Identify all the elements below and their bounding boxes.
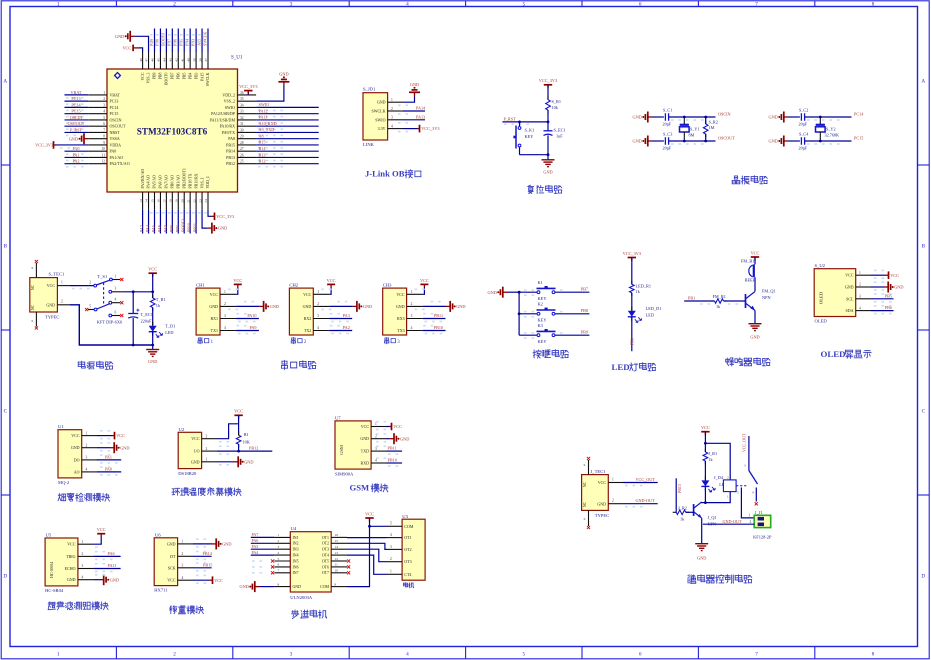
svg-text:OLED: OLED: [821, 349, 846, 359]
svg-text:PA12/USB/DP: PA12/USB/DP: [211, 111, 236, 116]
svg-text:39: 39: [192, 58, 196, 62]
svg-text:VSSA: VSSA: [110, 136, 120, 141]
svg-text:GND: GND: [279, 71, 288, 76]
svg-text:PA3: PA3: [139, 225, 144, 232]
svg-text:3: 3: [182, 564, 184, 568]
svg-text:RX2: RX2: [304, 316, 312, 321]
MCU left pins 1-12: [88, 94, 107, 96]
MCU right pins 36-25: [238, 94, 257, 96]
svg-text:16: 16: [335, 533, 339, 537]
svg-text:PA7/AO: PA7/AO: [165, 175, 169, 188]
svg-text:B14: B14: [259, 146, 267, 151]
svg-text:GND: GND: [67, 577, 76, 582]
wire CH2 TX net PA2: [329, 330, 352, 332]
svg-text:GND: GND: [410, 82, 419, 87]
wire MQ-2 DO net PA1: [97, 459, 121, 461]
svg-text:4: 4: [86, 468, 88, 472]
svg-text:1: 1: [317, 290, 319, 294]
svg-text:1: 1: [748, 514, 750, 518]
svg-text:6: 6: [31, 319, 33, 323]
svg-text:LED: LED: [646, 313, 654, 318]
svg-text:26: 26: [240, 153, 244, 157]
svg-text:PB11/RX: PB11/RX: [194, 173, 198, 188]
svg-text:S_C3: S_C3: [663, 131, 672, 136]
svg-text:5: 5: [523, 1, 526, 7]
svg-text:22: 22: [192, 199, 196, 203]
wire LED to collector junction: [704, 486, 706, 502]
svg-text:B13: B13: [259, 152, 266, 157]
svg-text:C: C: [922, 409, 926, 415]
wire R1 to IO junction: [238, 444, 240, 451]
caption 串口: [291, 338, 295, 344]
svg-text:ECHO: ECHO: [65, 566, 76, 571]
svg-text:COM: COM: [320, 585, 329, 589]
svg-text:PB15: PB15: [226, 142, 235, 147]
ground at HX711 pin1: [193, 543, 212, 545]
MCU top pins 48-37: [142, 52, 144, 69]
svg-text:VCC_OUT: VCC_OUT: [636, 477, 656, 482]
svg-text:PA15: PA15: [200, 72, 204, 81]
svg-text:GND: GND: [110, 577, 119, 582]
svg-text:OSCIN: OSCIN: [110, 117, 122, 122]
wire OT1 to U3 pin4: [347, 537, 387, 539]
wire MQ-2 AO net PA0: [97, 471, 121, 473]
svg-text:PA13: PA13: [416, 114, 425, 119]
svg-text:U1: U1: [58, 424, 64, 429]
svg-text:U4: U4: [291, 526, 297, 531]
svg-text:U7: U7: [335, 415, 341, 420]
svg-text:9: 9: [584, 463, 586, 467]
power VCC_3V3 to VDDA pin 9: [56, 144, 88, 146]
svg-text:VCC: VCC: [361, 424, 370, 429]
svg-text:GND: GND: [456, 304, 465, 309]
svg-text:STM32F103C8T6: STM32F103C8T6: [137, 127, 208, 137]
svg-text:PB11: PB11: [434, 313, 443, 318]
svg-text:GND: GND: [360, 436, 369, 441]
svg-text:VCC: VCC: [845, 273, 854, 278]
wire left MCU nets: [65, 94, 89, 96]
svg-text:VCC: VCC: [327, 278, 336, 283]
wire VCC to R1: [547, 85, 549, 100]
svg-text:GND: GND: [239, 584, 248, 589]
wire OT3 to U3 pin2: [347, 549, 387, 562]
svg-text:HX711: HX711: [154, 588, 168, 593]
transistor J_Q1 NPN: [693, 504, 695, 516]
svg-text:T_S1: T_S1: [97, 274, 108, 279]
svg-text:D: D: [921, 574, 925, 580]
svg-text:NC: NC: [583, 481, 587, 487]
ground at JD1 pin 1: [403, 97, 415, 103]
svg-text:S_K1: S_K1: [525, 128, 535, 133]
caption smoke detect module: [58, 493, 66, 500]
relay J_RK1 SRD-05 coil: [723, 480, 736, 492]
svg-text:2: 2: [750, 520, 752, 524]
wire junction to relay coil top: [705, 443, 730, 480]
svg-text:GND: GND: [218, 226, 227, 231]
svg-text:PB7: PB7: [171, 72, 175, 79]
svg-text:NPN: NPN: [762, 295, 771, 300]
transistor FM_Q1 NPN: [745, 294, 747, 308]
wire CH1 RX net PA10: [236, 318, 259, 320]
svg-text:OT3: OT3: [322, 548, 329, 552]
svg-text:OT1: OT1: [322, 536, 329, 540]
svg-text:PB3: PB3: [194, 72, 198, 79]
wire switch pin3 to VCC rail: [121, 291, 152, 293]
svg-text:KEY: KEY: [538, 339, 548, 344]
svg-text:PB12: PB12: [226, 161, 235, 166]
ground at MCU pin 47: [134, 36, 148, 52]
svg-text:38: 38: [198, 58, 202, 62]
svg-text:CH1: CH1: [196, 282, 205, 287]
svg-text:PA3/RX/AO: PA3/RX/AO: [141, 169, 145, 189]
svg-text:BOOT0: BOOT0: [165, 72, 169, 85]
svg-text:3: 3: [82, 564, 84, 568]
power VCC at MQ-2 pin1: [97, 435, 112, 437]
svg-text:4: 4: [390, 533, 392, 537]
wire node to net P_RST: [502, 121, 548, 123]
svg-text:PC14: PC14: [71, 102, 81, 107]
svg-text:CH3: CH3: [383, 282, 392, 287]
svg-text:GND: GND: [632, 115, 641, 120]
svg-text:5: 5: [390, 522, 392, 526]
svg-text:T_D1: T_D1: [165, 324, 175, 329]
svg-text:I/O: I/O: [194, 449, 199, 454]
wire VCC_OUT net: [608, 482, 623, 484]
svg-text:U5: U5: [46, 533, 52, 538]
svg-text:PC15: PC15: [854, 136, 863, 141]
power VCC_3V3 at VDD_2 pin 36: [247, 91, 249, 95]
wire SCK net PB15: [193, 567, 212, 569]
svg-text:TX2: TX2: [304, 328, 311, 333]
svg-text:OLED: OLED: [815, 319, 828, 324]
svg-text:PA1: PA1: [72, 152, 79, 157]
svg-text:220uF: 220uF: [141, 318, 153, 323]
svg-text:31: 31: [240, 122, 244, 126]
svg-text:11: 11: [102, 153, 106, 157]
svg-text:PB10: PB10: [187, 223, 192, 232]
svg-text:47: 47: [145, 58, 149, 62]
svg-text:GND: GND: [363, 304, 372, 309]
svg-text:S_C1: S_C1: [663, 107, 672, 112]
svg-text:SWIO: SWIO: [375, 117, 385, 122]
svg-text:NC: NC: [31, 304, 35, 310]
svg-text:8: 8: [872, 651, 875, 657]
svg-text:PA4/AO: PA4/AO: [147, 175, 151, 188]
wire VCC to buzzer: [754, 257, 756, 264]
svg-text:VCC: VCC: [191, 436, 200, 441]
svg-text:VCC: VCC: [393, 424, 402, 429]
svg-text:K3: K3: [538, 323, 544, 328]
caption 串口: [385, 338, 389, 344]
svg-text:U6: U6: [155, 532, 161, 537]
svg-text:OT2: OT2: [404, 547, 411, 552]
svg-text:LINK: LINK: [363, 142, 375, 147]
svg-text:OSCOUT: OSCOUT: [110, 124, 127, 129]
svg-text:LED: LED: [612, 362, 630, 372]
svg-text:GND: GND: [222, 542, 231, 547]
svg-text:BEEP: BEEP: [745, 277, 756, 282]
node junctions: [683, 116, 686, 119]
svg-text:HC-SR04: HC-SR04: [45, 588, 64, 593]
svg-text:6: 6: [103, 122, 105, 126]
wire OLED SDA net PB6: [871, 310, 894, 312]
caption stepper motor: [292, 610, 299, 619]
svg-text:GND: GND: [768, 139, 777, 144]
svg-text:4: 4: [278, 551, 280, 555]
svg-text:28: 28: [240, 141, 244, 145]
wire base net PB13: [675, 478, 677, 512]
power VCC at CH1 pin1: [236, 287, 238, 294]
relay switch contact: [749, 471, 758, 485]
wire TRIG net PA6: [93, 555, 120, 557]
svg-text:IN2: IN2: [293, 542, 299, 546]
svg-text:14: 14: [145, 199, 149, 203]
svg-text:PA8: PA8: [228, 136, 235, 141]
svg-text:PC13: PC13: [110, 99, 119, 104]
svg-text:TXD: TXD: [361, 449, 369, 454]
svg-text:33: 33: [240, 110, 244, 114]
svg-text:PB10: PB10: [388, 458, 397, 463]
svg-text:GND-OUT: GND-OUT: [723, 519, 743, 524]
svg-text:PB1: PB1: [175, 225, 180, 232]
svg-text:U3: U3: [402, 514, 408, 519]
svg-text:K1: K1: [538, 280, 543, 285]
svg-text:9: 9: [335, 582, 337, 586]
svg-text:GND: GND: [697, 556, 706, 561]
wire R2 to base: [686, 511, 694, 513]
svg-text:GND: GND: [191, 459, 200, 464]
switch K3 KEY: [519, 334, 538, 336]
power VCC at OLED pin1: [871, 274, 886, 276]
wire R1 to node: [547, 110, 549, 122]
svg-text:VDDA: VDDA: [110, 142, 122, 147]
wire net PB7: [555, 291, 589, 293]
svg-text:SWCLK: SWCLK: [202, 32, 207, 46]
ground relay driver: [695, 543, 708, 545]
svg-text:1: 1: [115, 274, 117, 278]
svg-text:LED_D1: LED_D1: [646, 306, 662, 311]
svg-text:46: 46: [151, 58, 155, 62]
svg-text:1: 1: [86, 431, 88, 435]
wire R1 to LED J_D4: [704, 461, 706, 480]
svg-text:1: 1: [391, 98, 393, 102]
power VCC_3V3 at MCU pin 24 VDD_1: [208, 210, 212, 217]
svg-text:2: 2: [390, 557, 392, 561]
svg-text:PB7: PB7: [581, 286, 588, 291]
svg-text:PB13: PB13: [226, 155, 235, 160]
svg-text:RXD: RXD: [361, 461, 370, 466]
svg-text:PB1/AO: PB1/AO: [176, 175, 180, 189]
svg-text:35: 35: [240, 97, 244, 101]
svg-text:OT6: OT6: [322, 565, 329, 569]
svg-text:1: 1: [82, 540, 84, 544]
svg-text:10: 10: [335, 569, 339, 573]
svg-text:GND: GND: [377, 100, 386, 105]
svg-text:9: 9: [31, 266, 33, 270]
crystal S_Y2 32.768K: [819, 117, 821, 125]
svg-text:SIM900A: SIM900A: [335, 472, 354, 477]
wire LED to ground rail: [152, 332, 154, 345]
svg-text:B15: B15: [259, 140, 266, 145]
svg-text:P_RST: P_RST: [70, 127, 83, 132]
svg-text:VSS_1: VSS_1: [200, 177, 204, 188]
node junctions: [819, 116, 822, 119]
wire top rail: [805, 116, 852, 118]
relay armature dashed link: [736, 485, 747, 487]
svg-text:GND: GND: [396, 304, 405, 309]
svg-text:PA7: PA7: [163, 225, 168, 232]
svg-text:PB5: PB5: [182, 72, 186, 79]
wire Q1 emitter to ground: [701, 518, 703, 544]
svg-text:VCC_3V3: VCC_3V3: [539, 78, 557, 83]
relay common pin net VCC_OUT: [748, 436, 750, 471]
svg-text:13: 13: [139, 199, 143, 203]
svg-text:IN3: IN3: [293, 548, 299, 552]
wire net PB1 to base: [684, 300, 714, 302]
svg-text:36: 36: [240, 91, 244, 95]
power VCC_3V3 at JD1 pin 4: [403, 128, 417, 130]
svg-text:27: 27: [240, 147, 244, 151]
svg-text:8: 8: [278, 582, 280, 586]
svg-text:PB4: PB4: [188, 72, 192, 79]
svg-text:SWIO: SWIO: [225, 105, 235, 110]
svg-text:NC: NC: [583, 501, 587, 507]
svg-text:8: 8: [103, 135, 105, 139]
svg-text:SDA: SDA: [845, 308, 853, 313]
crystal circuit right group: [768, 107, 864, 150]
svg-text:OT5: OT5: [322, 559, 329, 563]
svg-text:PA4: PA4: [252, 550, 259, 555]
svg-text:2: 2: [182, 552, 184, 556]
pin J_TEC1 NC bottom no-connect: [588, 510, 590, 526]
pin TYPEC NC bottom no-connect: [35, 312, 37, 327]
resistor R1 10K pull-up: [236, 435, 241, 444]
wire bottom rail: [669, 140, 716, 142]
svg-text:PB13: PB13: [677, 484, 682, 493]
svg-text:1: 1: [57, 651, 60, 657]
svg-text:8M: 8M: [689, 132, 695, 137]
svg-text:PA2: PA2: [343, 325, 350, 330]
svg-text:PB11: PB11: [388, 446, 397, 451]
svg-text:PB9: PB9: [153, 72, 157, 79]
ground at VSS_2 pin 35: [256, 86, 284, 101]
svg-text:OSCIN: OSCIN: [718, 112, 731, 117]
svg-text:A9_TXD: A9_TXD: [259, 127, 275, 132]
svg-text:PA11: PA11: [108, 563, 117, 568]
svg-text:15: 15: [335, 539, 339, 543]
svg-text:PC15: PC15: [110, 111, 119, 116]
svg-text:VCC_3V3: VCC_3V3: [216, 214, 234, 219]
svg-text:19: 19: [174, 199, 178, 203]
caption buzzer circuit: [726, 358, 734, 366]
svg-text:RX3: RX3: [397, 316, 405, 321]
ground at CH2 pin2: [329, 305, 352, 307]
svg-text:20pF: 20pF: [663, 122, 672, 127]
caption ultrasonic module: [48, 602, 55, 610]
svg-text:2: 2: [317, 302, 319, 306]
wire TYPEC GND pin2: [57, 304, 70, 306]
svg-text:J_TEC1: J_TEC1: [591, 469, 607, 474]
svg-text:PB9: PB9: [581, 329, 588, 334]
MCU-side input pins IN1-IN7: [274, 536, 290, 538]
svg-text:A: A: [921, 79, 925, 85]
svg-text:10K: 10K: [243, 440, 251, 445]
svg-text:3: 3: [290, 1, 293, 7]
svg-text:VCC: VCC: [210, 292, 219, 297]
svg-text:3: 3: [390, 545, 392, 549]
svg-text:4: 4: [82, 575, 84, 579]
svg-text:40: 40: [186, 58, 190, 62]
wire bottom MCU nets: [142, 210, 144, 234]
svg-text:10: 10: [101, 147, 105, 151]
caption reset circuit: [528, 185, 534, 193]
svg-text:PB12: PB12: [249, 446, 258, 451]
svg-text:KEY: KEY: [525, 134, 534, 139]
svg-text:PC13: PC13: [71, 96, 80, 101]
svg-text:2: 2: [612, 499, 614, 503]
svg-text:2: 2: [61, 300, 63, 304]
svg-text:4: 4: [406, 1, 409, 7]
svg-text:PB8: PB8: [159, 72, 163, 79]
svg-text:S_EC1: S_EC1: [554, 127, 566, 132]
svg-text:2: 2: [411, 302, 413, 306]
svg-text:PA10: PA10: [247, 313, 256, 318]
switch K2 KEY: [519, 313, 538, 315]
wire JD1 pin3 net PA13: [403, 119, 425, 121]
ground crystal bottom-left: [648, 140, 652, 142]
svg-text:12: 12: [335, 557, 339, 561]
svg-text:7: 7: [103, 128, 105, 132]
svg-text:B: B: [4, 244, 8, 250]
svg-text:LED: LED: [165, 330, 173, 335]
crystal circuit left group: [632, 107, 735, 150]
svg-text:3: 3: [290, 651, 293, 657]
svg-text:R1: R1: [244, 432, 249, 437]
svg-text:GND: GND: [750, 335, 759, 340]
svg-text:TYPEC: TYPEC: [45, 315, 60, 320]
svg-text:PA1/AO: PA1/AO: [110, 155, 124, 160]
svg-text:37: 37: [204, 58, 208, 62]
svg-text:GND: GND: [167, 541, 176, 546]
wire COM rail to VCC: [347, 518, 370, 587]
ground buttons: [503, 291, 507, 293]
svg-text:GND: GND: [69, 136, 78, 141]
svg-text:LED_R1: LED_R1: [636, 283, 652, 288]
svg-text:1uF: 1uF: [556, 134, 563, 139]
svg-text:12: 12: [101, 160, 105, 164]
svg-text:VCC: VCC: [701, 425, 710, 430]
svg-text:GND: GND: [46, 302, 55, 307]
svg-text:VCC: VCC: [396, 292, 405, 297]
crystal S_Y1 8M: [683, 117, 685, 125]
svg-text:KFT DIP-6X6: KFT DIP-6X6: [97, 319, 123, 324]
svg-text:1: 1: [182, 540, 184, 544]
svg-text:HC-SR04: HC-SR04: [49, 562, 54, 578]
svg-text:TX3: TX3: [397, 328, 404, 333]
svg-text:2: 2: [103, 97, 105, 101]
svg-text:GSM: GSM: [350, 483, 370, 493]
svg-text:J-Link OB: J-Link OB: [365, 169, 405, 179]
svg-text:1M: 1M: [709, 125, 715, 130]
svg-text:J_R1: J_R1: [708, 451, 717, 456]
svg-text:8: 8: [872, 1, 875, 7]
buzzer FM_B1 BEEP: [749, 265, 753, 277]
svg-text:B12: B12: [259, 159, 266, 164]
svg-text:PB14: PB14: [226, 149, 235, 154]
svg-text:SCK: SCK: [168, 565, 176, 570]
svg-text:C: C: [4, 409, 8, 415]
svg-text:7: 7: [278, 569, 280, 573]
